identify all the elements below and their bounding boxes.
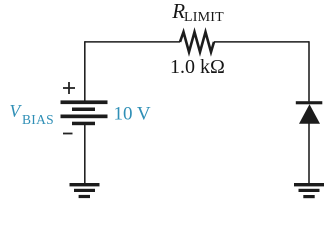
svg-text:10 V: 10 V	[114, 104, 151, 125]
svg-text:BIAS: BIAS	[22, 112, 54, 127]
svg-text:LIMIT: LIMIT	[184, 10, 224, 25]
svg-text:1.0 kΩ: 1.0 kΩ	[170, 56, 225, 78]
svg-text:V: V	[10, 101, 23, 121]
